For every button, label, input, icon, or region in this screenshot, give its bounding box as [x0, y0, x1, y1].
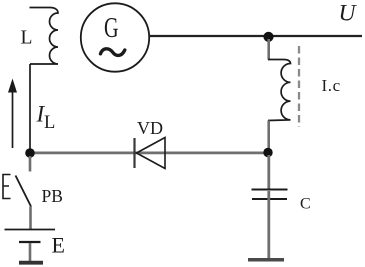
svg-text:VD: VD [137, 118, 163, 138]
tilde symbol [101, 49, 125, 56]
bottom terminal bar left [19, 261, 43, 265]
wire coil Lc to node C [267, 121, 270, 152]
wire battery to bottom stub [29, 243, 32, 261]
arrow IL [12, 91, 14, 148]
capacitor C top plate [252, 189, 288, 191]
svg-text:E: E [52, 232, 65, 257]
wire node C to capacitor [267, 155, 270, 189]
battery E short plate [19, 241, 41, 243]
wire switch to battery [29, 207, 32, 230]
generator U1 circle [81, 3, 149, 71]
pushbutton PB blade [16, 176, 32, 207]
wire capacitor to bottom stub [267, 191, 270, 258]
node C [263, 148, 272, 157]
inductor Lc [268, 60, 291, 121]
svg-text:PB: PB [42, 186, 63, 206]
iron core dashed [298, 46, 300, 127]
svg-text:G: G [104, 13, 119, 44]
battery E long plate [5, 229, 56, 231]
inductor L [30, 8, 59, 65]
diode VD triangle [137, 138, 166, 169]
wire coil-L bottom to node A [29, 64, 31, 152]
pushbutton PB bracket [3, 175, 11, 199]
wire generator to node B and right rail [149, 35, 362, 37]
wire node A to node C [30, 151, 268, 154]
svg-text:L: L [44, 113, 55, 133]
svg-text:C: C [300, 195, 311, 212]
bottom terminal bar right [248, 258, 284, 262]
svg-text:I.c: I.c [322, 76, 341, 95]
svg-text:U: U [339, 0, 358, 26]
wire node A to switch [29, 156, 32, 172]
svg-text:L: L [21, 27, 33, 48]
node B [263, 32, 273, 42]
diode VD cathode bar [133, 138, 135, 168]
node A [25, 148, 35, 158]
capacitor C bottom plate [252, 198, 287, 200]
wire node B to coil Lc [267, 39, 270, 60]
